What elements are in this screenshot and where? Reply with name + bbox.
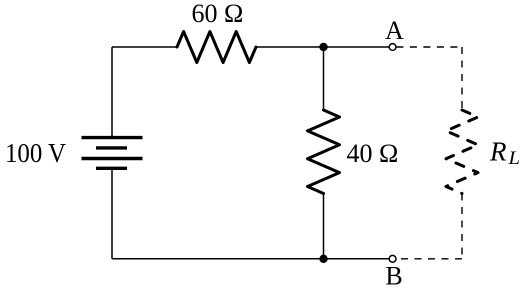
resistor RL load (dashed vertical zigzag): [446, 110, 478, 194]
wire: left rail lower (battery - down to bottom rail): [111, 170, 113, 259]
terminal B (open circle): [389, 255, 396, 262]
node: top junction dot: [319, 43, 327, 51]
wire: middle branch upper (top junction to 40 ohm): [323, 47, 325, 110]
resistor 40 ohm (vertical zigzag): [308, 110, 340, 194]
wire: dashed top (terminal A to load): [396, 46, 462, 48]
wire: top rail left segment (battery + to 60 ohm resistor): [112, 46, 177, 48]
svg-text:B: B: [385, 261, 402, 288]
svg-text:A: A: [385, 16, 404, 45]
wire: top rail right segment (60 ohm to terminal A): [256, 46, 389, 48]
value label RL: [489, 136, 520, 169]
terminal A (open circle): [389, 44, 396, 51]
wire: dashed bottom (load to terminal B): [396, 258, 462, 260]
wire: dashed right lower (load resistor down): [461, 194, 463, 259]
resistor 60 ohm (horizontal zigzag): [177, 32, 256, 63]
wire: dashed right upper (down to load resistor): [461, 47, 463, 110]
node: bottom junction dot: [319, 255, 327, 263]
svg-text:R: R: [489, 136, 507, 166]
wire: middle branch lower (40 ohm to bottom junction): [323, 194, 325, 259]
wire: bottom rail (battery - to terminal B): [112, 258, 389, 260]
svg-text:60 Ω: 60 Ω: [192, 0, 244, 28]
svg-text:L: L: [507, 148, 520, 169]
battery V1 100 V (two-cell symbol): [82, 138, 143, 169]
svg-text:100 V: 100 V: [5, 138, 66, 168]
wire: left rail upper (top rail down to battery): [111, 47, 113, 136]
svg-text:40 Ω: 40 Ω: [347, 139, 399, 168]
